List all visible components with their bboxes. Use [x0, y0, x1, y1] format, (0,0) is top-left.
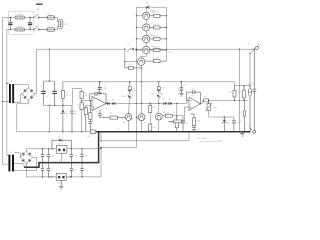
capacitor C1 X-cap left	[8, 17, 12, 30]
capacitor C23	[70, 163, 77, 178]
svg-text:3k3: 3k3	[66, 95, 69, 97]
svg-text:C14: C14	[246, 83, 249, 85]
svg-text:D3: D3	[112, 100, 114, 102]
wire Q5 collector	[141, 56, 146, 58]
svg-text:D9: D9	[227, 121, 229, 123]
capacitor C21	[41, 163, 48, 178]
svg-text:R7 10R: R7 10R	[153, 12, 159, 14]
svg-text:D2: D2	[107, 100, 109, 102]
wire Q7 base	[136, 117, 139, 118]
wire REG2 output	[66, 176, 71, 177]
capacitor C22	[47, 163, 54, 178]
transistor Q7	[138, 114, 146, 125]
resistor R8	[150, 24, 167, 29]
svg-text:R21: R21	[204, 96, 207, 98]
wire D2-D3	[110, 103, 113, 105]
svg-text:S2: S2	[127, 44, 129, 46]
LED1	[121, 91, 133, 99]
svg-text:T2: T2	[10, 152, 12, 154]
svg-text:1N914: 1N914	[133, 91, 138, 93]
svg-text:L1 10mH: L1 10mH	[16, 14, 24, 16]
diode D3	[112, 100, 115, 105]
resistor R1 bleeder	[61, 82, 68, 106]
wire BR2 minus	[25, 163, 27, 177]
svg-text:C16: C16	[251, 83, 254, 85]
wire branch x124.8	[124, 49, 126, 62]
svg-text:S1: S1	[37, 9, 39, 11]
svg-text:C9: C9	[96, 111, 98, 113]
wire control mid	[134, 49, 255, 50]
rail ladder right	[165, 7, 167, 61]
wire ladder chain	[145, 7, 147, 56]
transistor Q6	[123, 114, 132, 125]
resistor R21	[204, 96, 209, 102]
resistor R12	[125, 62, 142, 70]
wire Q2 base	[136, 27, 143, 28]
svg-text:C4: C4	[46, 96, 48, 98]
main regulated rail	[63, 81, 234, 83]
zener D9	[222, 117, 230, 133]
svg-text:R16: R16	[170, 122, 173, 124]
transistor Q4	[143, 46, 154, 54]
svg-text:R15: R15	[166, 112, 169, 114]
diode D11 protection	[51, 137, 71, 150]
wire LED2 down	[158, 99, 159, 104]
node T1 primary top	[6, 83, 7, 84]
EMI filter dashed enclosure	[9, 11, 34, 34]
svg-text:C5: C5	[74, 111, 76, 113]
resistor R19	[229, 86, 236, 101]
svg-text:LED2: LED2	[151, 93, 156, 95]
svg-text:C15: C15	[236, 122, 239, 124]
bus inline link	[87, 130, 96, 138]
svg-text:F1: F1	[49, 14, 51, 16]
svg-text:R2: R2	[85, 93, 87, 95]
capacitor C20	[80, 148, 87, 163]
bridge rectifier BR2	[20, 151, 32, 163]
svg-text:C23: C23	[74, 170, 77, 172]
wire reservoir ground drop	[49, 105, 50, 132]
wire D7-D8	[167, 103, 169, 105]
diode D7	[162, 99, 166, 105]
resistor R4	[84, 106, 87, 132]
transformer T2	[8, 152, 14, 172]
connector CON1 outlet	[58, 20, 67, 29]
svg-text:5V1: 5V1	[239, 120, 242, 122]
wire aux plus route	[100, 148, 101, 177]
svg-text:R20: R20	[239, 92, 242, 94]
zener D1	[61, 105, 69, 132]
capacitor C15	[232, 117, 239, 133]
svg-text:Q6: Q6	[123, 122, 125, 124]
svg-text:Q7: Q7	[144, 123, 146, 125]
wire D8 to U2	[172, 101, 190, 105]
capacitor C18	[47, 148, 54, 163]
wire T2 primary bottom	[3, 163, 9, 165]
svg-text:10k: 10k	[85, 95, 88, 97]
op-amp U1	[92, 94, 106, 110]
svg-text:D11: D11	[58, 137, 61, 139]
wire sense vertical x240	[239, 49, 240, 132]
svg-text:C22: C22	[51, 170, 54, 172]
svg-text:F2: F2	[49, 26, 51, 28]
svg-text:www.sound-au.com P05B: www.sound-au.com P05B	[200, 141, 222, 143]
transistor Q5	[138, 57, 145, 66]
resistor R13	[149, 103, 156, 113]
wire U2 output jog	[200, 100, 204, 104]
capacitor C9	[96, 110, 102, 119]
svg-text:T1: T1	[11, 81, 13, 83]
terminal output positive	[247, 43, 259, 49]
switch S1 pole B	[33, 26, 47, 30]
regulator REG2	[56, 173, 66, 184]
svg-text:R9 10R: R9 10R	[153, 35, 159, 37]
wire T2 center tap	[14, 163, 24, 167]
svg-text:CN1: CN1	[64, 24, 67, 26]
svg-text:R8 10R: R8 10R	[153, 24, 159, 26]
svg-text:C13: C13	[197, 129, 200, 131]
wire BR1 minus route	[17, 100, 29, 132]
wire T2 secondary top	[14, 153, 20, 157]
wire reservoir bottom bracket	[44, 105, 73, 106]
resistor R20	[239, 85, 246, 100]
wire BR1 plus riser	[35, 49, 37, 94]
resistor R18	[190, 114, 200, 126]
resistor R11	[145, 57, 167, 62]
capacitor C7 feedback	[90, 92, 107, 104]
resistor R9	[150, 35, 167, 40]
wire aux line A	[100, 140, 189, 141]
svg-text:100n: 100n	[104, 88, 108, 90]
wire Q5 emitter drop	[141, 65, 142, 82]
capacitor C5	[70, 105, 78, 132]
wire rail corner	[235, 82, 251, 86]
switch S1 pole A	[33, 14, 47, 18]
wire Q3 base	[136, 38, 143, 39]
wire divider to inverting input	[82, 100, 92, 102]
switch S1 mechanical link dashed	[37, 7, 39, 27]
ground symbol on bus	[240, 132, 244, 136]
svg-text:D7: D7	[162, 99, 164, 101]
capacitor C17	[41, 148, 48, 163]
capacitor C4 reservoir	[46, 81, 57, 105]
resistor R5 feedback leg	[89, 100, 92, 119]
capacitor C19	[70, 148, 77, 163]
wire Q7 emitter	[141, 121, 142, 133]
rail ladder left	[135, 7, 137, 147]
wire Q1 base	[136, 15, 143, 16]
svg-text:C24: C24	[84, 170, 87, 172]
capacitor C13	[192, 126, 200, 133]
capacitor C24	[80, 163, 87, 178]
thick riser to bus	[98, 131, 100, 163]
svg-text:D4: D4	[146, 2, 148, 4]
capacitor C11 feedback	[187, 89, 201, 104]
resistor R2	[80, 91, 87, 99]
switch S2	[127, 44, 134, 52]
svg-text:R10 10R: R10 10R	[153, 46, 160, 48]
wire fuse to outlet top	[55, 18, 59, 22]
rail aux mid thick B	[39, 162, 99, 164]
svg-text:D6: D6	[162, 88, 164, 90]
trimpot VR1	[205, 100, 216, 111]
resistor R10	[150, 46, 167, 51]
fuse F2	[47, 26, 55, 32]
resistor R15	[162, 112, 172, 117]
wire aux line B	[100, 147, 136, 148]
wire LED1 to Q6	[128, 99, 131, 113]
resistor R6	[102, 113, 126, 120]
svg-text:R13: R13	[153, 107, 156, 109]
ground bus thick	[96, 131, 251, 133]
fuse F1	[47, 14, 55, 20]
svg-text:R19: R19	[229, 92, 232, 94]
wire line A riser	[188, 133, 190, 141]
svg-text:VR1: VR1	[213, 108, 217, 110]
wire branch x176.8	[176, 104, 178, 116]
svg-text:© R. Elliott: © R. Elliott	[197, 137, 207, 140]
svg-text:78L15: 78L15	[57, 144, 62, 146]
wire aux output vertical	[249, 53, 250, 86]
wire reservoir top bracket	[44, 80, 55, 81]
svg-text:C3: C3	[35, 96, 37, 98]
transistor Q3	[143, 35, 154, 43]
wire BR2 plus	[26, 149, 56, 151]
capacitor C10	[181, 116, 188, 133]
wire T1 primary top	[7, 83, 9, 85]
regulator REG1	[57, 144, 67, 154]
resistor R3	[76, 103, 83, 110]
svg-text:100n: 100n	[74, 114, 78, 116]
wire T2 secondary bottom	[14, 157, 37, 170]
svg-text:U2: U2	[191, 95, 193, 97]
resistor R14	[149, 124, 156, 133]
svg-text:R1: R1	[66, 93, 68, 95]
front panel bar	[36, 1, 43, 4]
node T1 primary bottom	[2, 101, 3, 102]
wire divider top loop	[73, 89, 82, 106]
diode D4	[146, 2, 155, 12]
op-amp U2	[189, 95, 200, 111]
svg-text:D5: D5	[133, 88, 135, 90]
svg-text:Q8: Q8	[163, 112, 165, 114]
ground symbol under C12	[179, 94, 183, 97]
transistor Q2	[143, 23, 154, 31]
svg-text:R3: R3	[76, 105, 78, 107]
ground symbol under C8	[98, 92, 102, 95]
svg-text:C20: C20	[84, 156, 87, 158]
wire T1 secondary bottom	[14, 94, 22, 103]
wire Q7 collector	[141, 82, 142, 114]
svg-text:C8: C8	[104, 86, 106, 88]
diode D10 pill	[239, 100, 246, 132]
terminal output common	[249, 127, 256, 133]
svg-text:R11 10R: R11 10R	[153, 57, 160, 59]
bridge rectifier BR1	[22, 88, 38, 101]
wire mains neutral horizontal	[7, 29, 34, 31]
wire VR1 bottom	[209, 111, 234, 118]
capacitor C14 electrolytic	[246, 83, 251, 132]
rail aux mid thick A	[24, 166, 39, 168]
wire output diagonal	[249, 49, 254, 54]
svg-text:D1: D1	[65, 111, 67, 113]
wire R15 right	[173, 115, 184, 116]
transistor Q8	[155, 112, 165, 120]
rail aux minus	[26, 176, 101, 178]
transformer T1	[9, 81, 14, 103]
svg-text:D8: D8	[168, 99, 170, 101]
wire x101 upper	[100, 131, 101, 141]
svg-text:link: link	[87, 136, 90, 138]
svg-text:C18: C18	[51, 156, 54, 158]
rail aux thick step	[38, 162, 40, 168]
wire Q5 base	[124, 61, 137, 62]
wire mains neutral vertical drop	[6, 30, 8, 156]
resistor R7	[150, 12, 167, 17]
capacitor C2 X-cap right	[28, 17, 32, 30]
wire Q8 collector	[158, 104, 160, 114]
transistor Q1	[143, 11, 154, 19]
svg-text:D10: D10	[239, 113, 242, 115]
svg-text:R18: R18	[197, 121, 200, 123]
wire Q8 emitter	[158, 120, 159, 133]
wire mains live horizontal	[3, 17, 34, 19]
wire U1 output	[105, 103, 107, 104]
resistor R17	[168, 118, 182, 123]
wire T1 secondary top	[14, 85, 28, 88]
svg-text:C19: C19	[74, 156, 77, 158]
choke L1	[15, 14, 25, 19]
diode D2	[107, 100, 110, 105]
svg-text:C10: C10	[185, 123, 188, 125]
wire R13-R14	[149, 113, 151, 125]
wire T2 primary top	[7, 155, 8, 157]
wire REG2 input	[50, 176, 56, 177]
wire R4 to noninverting input	[86, 105, 92, 107]
diode D5	[128, 81, 137, 92]
wire reservoir feed drop	[48, 49, 50, 81]
capacitor C3 reservoir	[35, 81, 46, 105]
LED2	[151, 91, 163, 98]
capacitor C6 feedback leg	[89, 120, 93, 133]
wire R17 to U2 plus	[182, 107, 190, 121]
wire raw supply	[37, 49, 126, 50]
thin ground wire left	[17, 131, 90, 133]
wire fuse to outlet bottom	[55, 26, 59, 29]
diode D8	[168, 99, 172, 105]
wire after D3	[115, 103, 163, 104]
wire Q6 emitter	[128, 120, 129, 132]
svg-text:LED1: LED1	[121, 96, 126, 98]
wire REG1 ground pin	[61, 153, 62, 163]
wire R3 to ground	[81, 110, 82, 133]
capacitor C16 output	[251, 49, 256, 130]
wire ladder top	[136, 6, 166, 8]
ground symbol REG2	[59, 180, 63, 189]
node divider mid	[81, 99, 82, 103]
svg-text:C12: C12	[183, 84, 186, 86]
diode D6	[157, 81, 164, 91]
svg-text:R17: R17	[175, 118, 178, 120]
copyright text	[197, 137, 223, 143]
capacitor C12 rail decoupling	[179, 81, 185, 93]
svg-text:L2 10mH: L2 10mH	[16, 26, 24, 28]
svg-text:R6: R6	[110, 113, 112, 115]
wire T1 primary bottom	[3, 101, 9, 103]
label 24V	[168, 52, 172, 54]
svg-text:R12: R12	[129, 64, 132, 66]
capacitor C8 rail decoupling	[98, 81, 107, 92]
node bus 0V	[118, 128, 121, 132]
resistor R16	[170, 116, 178, 133]
wire U2 output	[208, 100, 249, 101]
wire Q4 base	[136, 49, 143, 50]
rail aux plus right	[67, 148, 101, 150]
svg-text:5V6: 5V6	[227, 123, 230, 125]
svg-text:C11: C11	[191, 89, 194, 91]
choke L2	[15, 26, 25, 31]
wire mains live vertical drop	[2, 18, 4, 165]
svg-text:R14: R14	[153, 127, 156, 129]
